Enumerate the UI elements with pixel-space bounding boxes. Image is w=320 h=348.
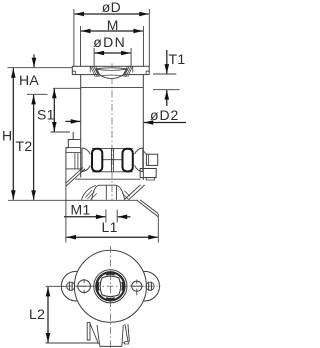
svg-text:T2: T2 [16, 138, 33, 154]
svg-text:L1: L1 [102, 219, 118, 235]
svg-text:M: M [107, 17, 119, 33]
svg-text:øD: øD [102, 0, 121, 15]
svg-text:M1: M1 [71, 202, 91, 218]
svg-text:T1: T1 [169, 51, 186, 67]
svg-text:øDN: øDN [93, 34, 126, 50]
svg-text:HA: HA [19, 72, 39, 88]
svg-text:øD2: øD2 [150, 107, 179, 123]
svg-text:S1: S1 [37, 107, 55, 123]
svg-text:L2: L2 [29, 306, 45, 322]
svg-text:H: H [2, 128, 12, 144]
